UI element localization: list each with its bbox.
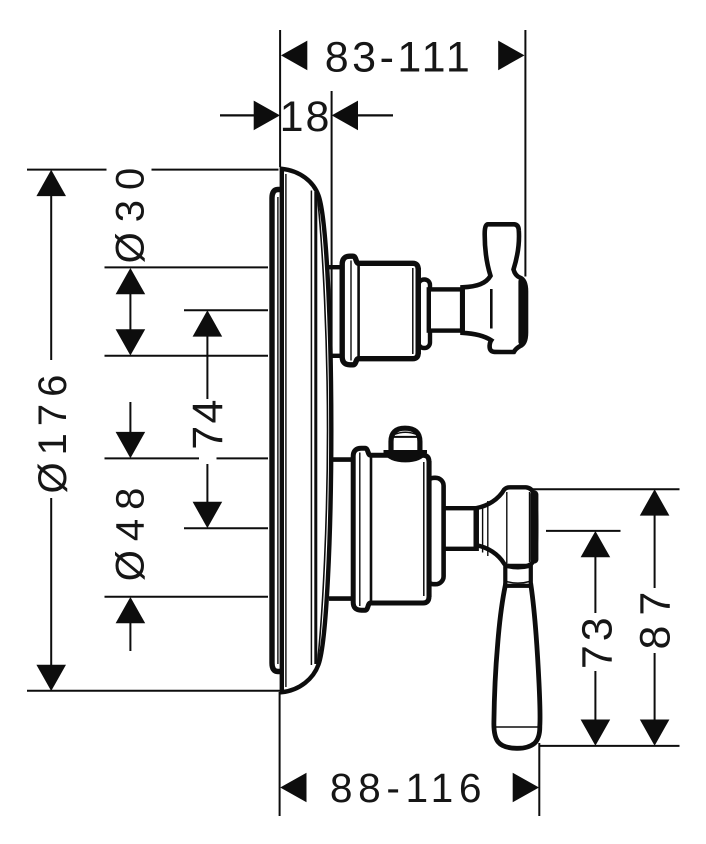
svg-text:88-116: 88-116 <box>330 765 487 811</box>
extension line 73 top (y=530.9) <box>546 530 621 532</box>
upper handle step disc <box>419 280 431 349</box>
lower knob <box>391 428 420 458</box>
extension line 87 top (y=489.2) <box>524 488 680 490</box>
extension line diameter 48 bottom (y=596.8) <box>105 596 269 598</box>
dimension diameter 48 shafts and arrowheads <box>129 402 131 651</box>
extension line x=539.3 for 88-116 <box>538 743 540 816</box>
extension line x=331.6 upper part (18 right) <box>331 91 333 168</box>
lower stem <box>443 508 477 549</box>
extension line x=331.6 over plate <box>331 168 333 460</box>
fixture layer <box>272 168 540 748</box>
stub line plate to upper flange at diameter30 top <box>329 265 342 269</box>
wall plate inner dome arc <box>318 197 328 663</box>
lever collar upper arc <box>507 567 530 569</box>
upper handle body (cross handle with hub) <box>463 224 527 352</box>
lower ring <box>426 478 444 584</box>
tangent line top of plate (y=169.6) <box>27 169 279 171</box>
extension line 74 bottom / lower handle axis (y=528.2) <box>184 527 268 529</box>
stub line plate to lower flange at diameter48 bottom <box>329 596 354 601</box>
upper sleeve flange-cylinder boundary line <box>357 265 360 358</box>
upper sleeve body (flange + cylinder) <box>342 256 418 365</box>
lever bell <box>477 487 537 566</box>
lever collar <box>505 563 531 586</box>
lever collar lower arc <box>507 582 530 584</box>
lower sleeve flange-cylinder boundary line <box>370 457 373 602</box>
dimension 88-116 arrowheads <box>280 773 539 803</box>
stub line plate to upper flange at diameter30 bottom <box>330 354 342 358</box>
wall plate back flange <box>272 190 280 672</box>
extension line diameter 48 top (y=458.4) with gap for 74 shaft <box>105 457 269 459</box>
extension line x=525.4 for 83-111 <box>524 30 526 277</box>
wall plate body <box>282 169 332 692</box>
dimension 74 shafts and arrowheads <box>206 336 208 504</box>
extension line x=280 for 83-111 and 18 <box>279 30 281 167</box>
lower knob inner dome arc <box>394 432 416 434</box>
wall plate front disc line <box>314 192 317 664</box>
lower knob foot <box>384 450 428 462</box>
lever tip inner line <box>495 726 540 728</box>
dimension diameter 176 vertical line and arrowheads <box>50 195 52 666</box>
upper sleeve front edge heavy <box>416 268 421 354</box>
upper sleeve cylinder front line <box>412 268 414 354</box>
lower lever arm <box>494 585 540 748</box>
lower stem end cap <box>474 507 479 551</box>
svg-text:74: 74 <box>184 397 232 449</box>
lever bell front band <box>530 495 538 560</box>
extension line diameter 30 bottom (y=355.7) <box>105 355 269 357</box>
wall plate front disc line thin <box>310 191 312 666</box>
svg-text:83-111: 83-111 <box>325 33 474 81</box>
extension line 73/87 bottom (y=745.9) <box>540 745 680 747</box>
lower sleeve flange inner line <box>359 453 361 607</box>
upper stem end cap <box>460 288 465 333</box>
lower sleeve cylinder front line <box>423 462 425 596</box>
dimension 83-111 arrowheads <box>281 41 525 71</box>
upper handle waist line <box>490 289 493 329</box>
extension line diameter 30 top (y=267.4) <box>105 266 269 268</box>
svg-text:18: 18 <box>280 93 332 141</box>
wall plate inner rim line <box>285 174 287 687</box>
wall plate back flange inner line <box>277 197 279 664</box>
dimension 18 leaders and arrowheads <box>220 114 255 116</box>
dimension 87 shafts and arrowheads <box>654 515 656 722</box>
svg-text:73: 73 <box>573 613 621 669</box>
svg-text:Ø30: Ø30 <box>108 158 152 264</box>
svg-text:Ø48: Ø48 <box>108 479 152 582</box>
upper handle stem <box>429 289 463 330</box>
lower knob cap seam <box>394 436 417 438</box>
lever bell front inner lines <box>506 492 508 563</box>
tangent line bottom of plate (y=690.7) <box>27 690 290 692</box>
lower sleeve front edge heavy <box>427 461 432 597</box>
extension line 74 top / upper handle axis (y=310.2) <box>184 309 268 311</box>
dimension diameter 30 double arrow <box>129 293 131 331</box>
upper sleeve flange inner line <box>350 261 352 361</box>
svg-text:87: 87 <box>632 582 680 650</box>
lower sleeve body (flange + cylinder) <box>353 448 429 610</box>
extension line x=279.6 for 88-116 <box>279 692 281 816</box>
dimension 73 shafts and arrowheads <box>594 556 596 721</box>
svg-text:Ø176: Ø176 <box>31 368 75 494</box>
upper handle front cap band <box>518 282 524 343</box>
lever bell flare lines <box>482 505 484 553</box>
stub line plate to lower flange at diameter48 top <box>331 457 354 462</box>
